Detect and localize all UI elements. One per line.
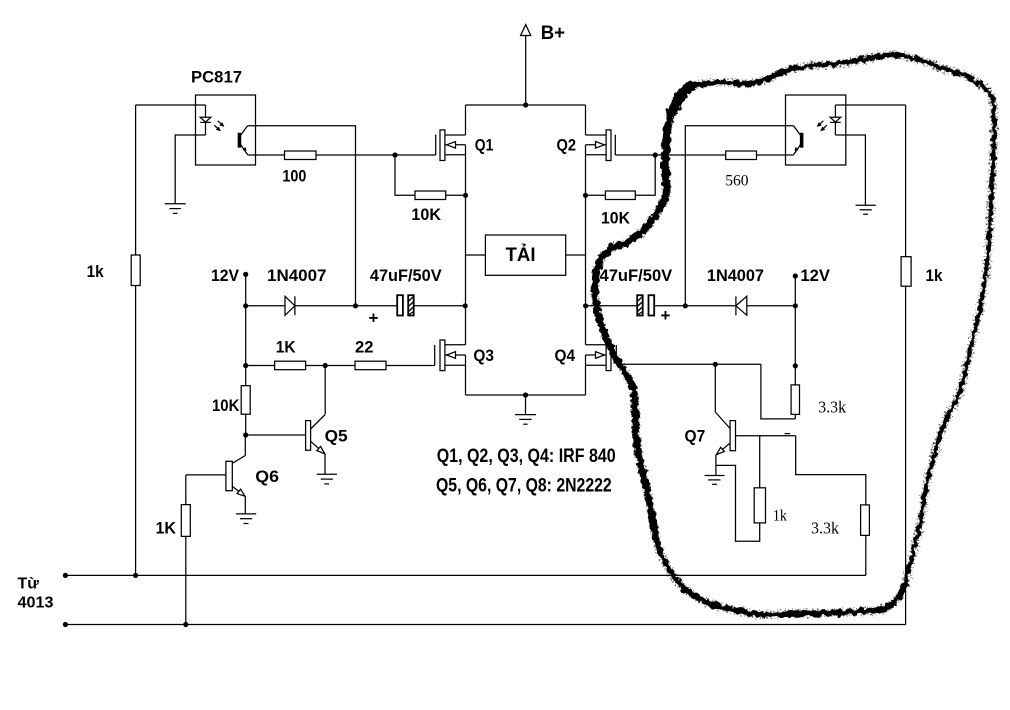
wire bridge left rail middle (465, 145, 467, 345)
svg-text:10K: 10K (601, 209, 631, 228)
node 10K on rail (463, 193, 468, 198)
wire 12V right down (794, 276, 796, 306)
resistor 1k (right feed) (901, 257, 911, 287)
wire left feed rail lower (135, 286, 137, 576)
transistor Q7 (685, 412, 796, 455)
resistor 10K vertical (241, 386, 250, 415)
wire bridge left rail lower (465, 355, 467, 395)
diode D2 1N4007 (707, 266, 764, 315)
transistor Q1 IRF840 (436, 130, 494, 161)
wire 1k top to Q7 base (759, 436, 761, 488)
svg-text:4013: 4013 (18, 595, 54, 612)
node cap right (683, 303, 688, 308)
resistor 3.3k lower (861, 505, 870, 536)
wire 1K to 22 (306, 365, 355, 367)
wire Q7 emitter to ground (715, 455, 717, 476)
freehand marker speckle texture (595, 55, 995, 615)
node C2 on rail (583, 303, 588, 308)
wire Q7 collector vertical (714, 364, 716, 412)
node left rail on bus 1 (133, 573, 138, 578)
wire Q4 gate to Q7 node (616, 363, 761, 365)
wire 560 to U2 emitter (757, 154, 794, 156)
svg-text:3.3k: 3.3k (818, 398, 846, 417)
resistor 3.3k upper (791, 385, 799, 415)
wire 10K to Q5 base node (245, 414, 247, 435)
node 1K on bus 2 (183, 622, 188, 627)
wire U1 LED cathode to ground (175, 135, 205, 204)
node Q1 gate (392, 152, 397, 157)
wire U1 LED anode (136, 104, 206, 106)
svg-text:560: 560 (725, 172, 748, 189)
freehand marker loop upper left limb (663, 86, 692, 203)
wire U1 emitter (248, 154, 285, 156)
svg-text:10K: 10K (411, 205, 441, 224)
wire 10K to left bridge rail (446, 194, 466, 196)
node 12V right (793, 273, 798, 278)
node 1K row left (243, 363, 248, 368)
svg-text:PC817: PC817 (191, 68, 242, 87)
diode D1 1N4007 (267, 266, 327, 315)
U2 light arrows (817, 121, 827, 132)
wire 12V right vertical to 3.3k (794, 306, 796, 385)
svg-text:+: + (661, 306, 671, 325)
svg-text:10K: 10K (212, 396, 240, 415)
svg-text:3.3k: 3.3k (811, 519, 839, 538)
svg-text:12V: 12V (211, 266, 240, 285)
wire to diode D1 (246, 305, 285, 307)
ground bridge (515, 395, 536, 424)
wire 22 to Q3 gate (386, 365, 435, 367)
svg-text:1N4007: 1N4007 (267, 266, 327, 285)
capacitor C2 47uF/50V (600, 266, 673, 325)
wire Q6 emitter to ground (244, 497, 246, 514)
wire 3.3k lower to bus 1 (865, 535, 867, 575)
wire Q2 gate node to 560 (655, 154, 726, 156)
wire D1 to cap node (295, 305, 356, 307)
transistor Q4 IRF840 (555, 340, 617, 371)
wire Q4 gate down to 3.3k bottom wire (761, 364, 795, 419)
wire to resistor 1K (246, 365, 275, 367)
wire bus 1 (65, 574, 865, 576)
wire 100 to Q1 gate (316, 154, 436, 156)
resistor 22 (355, 361, 386, 370)
svg-text:Q7: Q7 (685, 427, 706, 446)
svg-text:22: 22 (355, 337, 374, 356)
resistor 1k (Q7) (754, 488, 765, 523)
node Q5 collector (323, 363, 328, 368)
svg-text:1k: 1k (773, 507, 787, 524)
svg-text:1N4007: 1N4007 (707, 266, 764, 285)
wire bridge right rail middle (585, 145, 587, 345)
capacitor C1 47uF/50V (369, 266, 443, 328)
svg-text:Q2: Q2 (557, 136, 577, 155)
wire right feed rail lower (905, 286, 907, 624)
node C1 on rail (463, 303, 468, 308)
wire Q5 collector vertical (324, 366, 326, 415)
wire bridge right rail lower (585, 355, 587, 395)
node Q5 base (243, 432, 248, 437)
node Q7 collector (713, 362, 718, 367)
wire Q2 gate (615, 154, 655, 156)
node diode anode left (243, 303, 248, 308)
node bus 1 left end (63, 573, 68, 578)
wire bridge left rail upper (465, 105, 467, 135)
svg-text:1K: 1K (156, 519, 177, 538)
node bridge bottom center (523, 392, 528, 397)
ground U1 (165, 204, 186, 214)
wire D2 to cap node right (685, 305, 736, 307)
wire Q6 collector to base node (244, 435, 246, 456)
node cap left (353, 303, 358, 308)
svg-text:100: 100 (282, 167, 306, 186)
resistor 560 (726, 151, 757, 160)
transistor Q3 IRF840 (435, 340, 494, 371)
wire 3.3k bottom lead (794, 414, 796, 419)
optocoupler U1 body (196, 95, 256, 165)
svg-text:Q3: Q3 (473, 346, 494, 365)
svg-text:Q1, Q2, Q3, Q4: IRF 840: Q1, Q2, Q3, Q4: IRF 840 (437, 446, 616, 467)
LED inside U1 (200, 105, 211, 135)
U1 phototransistor (238, 126, 247, 155)
svg-text:Q4: Q4 (555, 346, 576, 365)
svg-text:1K: 1K (276, 337, 296, 356)
wire left feed rail upper (135, 105, 137, 255)
resistor 1K (Q6 base) (181, 505, 190, 537)
resistor 10K (Q1 gate-source) (415, 191, 446, 200)
wire right feed rail upper (905, 105, 907, 257)
wire C2 to right rail (586, 305, 637, 307)
wire bus 2 (65, 624, 905, 626)
svg-text:1k: 1k (926, 266, 943, 285)
node on 12V right line (793, 363, 798, 368)
ground Q6 (236, 514, 256, 524)
node Q2 gate (653, 152, 658, 157)
freehand marker loop left limb (595, 202, 663, 540)
transistor Q6 (186, 456, 279, 497)
svg-text:+: + (369, 309, 379, 328)
U2 phototransistor (794, 126, 803, 155)
wire gate node down to 10K (395, 155, 415, 195)
wire Q6 base to 1K (185, 475, 187, 505)
transistor Q5 (246, 415, 348, 454)
wire Q7 emitter branch to 1k (716, 465, 760, 541)
wire to capacitor C2 (654, 305, 685, 307)
wire 10K to right bridge rail (586, 194, 606, 196)
svg-text:Q6: Q6 (255, 467, 279, 486)
transistor Q2 IRF840 (557, 130, 616, 161)
wire U1 collector to cap node (248, 126, 356, 306)
wire to diode D2 (747, 305, 796, 307)
ground Q5 (317, 474, 337, 484)
svg-text:Từ: Từ (18, 576, 40, 593)
wire 12V left down (245, 274, 247, 306)
wire Q7 base to 3.3k lower (796, 436, 866, 505)
svg-text:Q1: Q1 (475, 136, 494, 155)
U1 light arrows (214, 121, 224, 132)
resistor 1K (275, 361, 306, 370)
wire bridge right rail upper (585, 105, 587, 135)
wire 12V left vertical mid (245, 306, 247, 386)
B+ supply arrow (521, 23, 566, 105)
ground U2 (856, 205, 876, 214)
node 10K right on rail (583, 193, 588, 198)
stray tick (572, 448, 573, 453)
svg-text:47uF/50V: 47uF/50V (600, 266, 673, 285)
node diode anode right (793, 303, 798, 308)
svg-text:Q5: Q5 (325, 427, 348, 446)
svg-text:B+: B+ (541, 23, 565, 44)
label Tu 4013 (18, 576, 54, 612)
freehand marker loop bottom (656, 540, 905, 615)
wire U2 collector to cap node right (685, 126, 793, 306)
wire U2 LED cathode to ground (835, 135, 865, 205)
stray dash (785, 433, 791, 435)
svg-text:47uF/50V: 47uF/50V (370, 266, 442, 285)
wire bridge bottom edge (466, 394, 586, 396)
freehand marker loop top arc (692, 55, 897, 86)
wire C1 to left rail (415, 305, 466, 307)
wire gate node down to 10K right (635, 155, 655, 195)
wire bridge top edge (466, 104, 586, 106)
node bus 2 left end (63, 622, 68, 627)
node B+ on bridge top (523, 102, 528, 107)
svg-text:Q5, Q6, Q7, Q8: 2N2222: Q5, Q6, Q7, Q8: 2N2222 (436, 476, 612, 497)
resistor 1k (left feed) (131, 255, 140, 286)
wire 1K down to bus 2 (185, 536, 187, 624)
ground Q7 (705, 476, 725, 485)
freehand marker loop right side (905, 180, 992, 585)
load box TAI (466, 235, 586, 275)
svg-text:1k: 1k (87, 262, 104, 281)
optocoupler U2 body (786, 95, 846, 165)
resistor 100 (285, 151, 317, 160)
resistor 10K (Q2 gate-source) (605, 191, 635, 200)
LED inside U2 (830, 105, 841, 135)
wire U2 LED anode to right rail (835, 104, 905, 106)
freehand marker loop top right corner (897, 55, 995, 180)
svg-text:12V: 12V (800, 266, 830, 285)
svg-text:TẢI: TẢI (506, 243, 536, 266)
wire Q5 emitter to ground (324, 454, 326, 474)
wire to capacitor C1 (356, 305, 398, 307)
freehand marker dense start blob (666, 86, 694, 199)
